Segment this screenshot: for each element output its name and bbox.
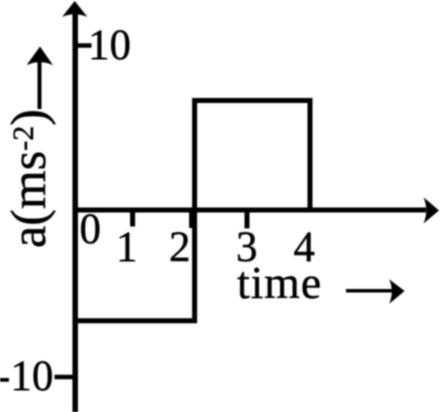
label -10 (0, 355, 53, 398)
label 0 (80, 208, 102, 251)
label 4 (294, 226, 316, 269)
x-axis (73, 208, 426, 213)
tick t=1 (130, 210, 135, 227)
x-axis arrowhead (424, 197, 440, 223)
label 10 (88, 24, 131, 67)
y-axis (72, 10, 78, 412)
tick +10 on y-axis (76, 43, 92, 48)
rotated y-axis label a(ms^-2) (3, 109, 53, 248)
time arrow shaft (346, 289, 396, 293)
a-axis label arrow shaft (38, 57, 42, 109)
tick -10 on y-axis (55, 375, 75, 380)
y-axis arrowhead (62, 1, 88, 17)
tick t=3 (245, 210, 250, 228)
label time (237, 260, 322, 306)
label 1 (116, 226, 138, 269)
label 2 (169, 226, 191, 269)
tick t=2 (189, 211, 194, 228)
label 3 (236, 226, 258, 269)
waveform: square pulse a=-7.5 (0..2s) then +7.5 (2..4s) (75, 101, 310, 321)
time arrow head (389, 279, 404, 304)
a-axis label arrow head (27, 47, 54, 66)
